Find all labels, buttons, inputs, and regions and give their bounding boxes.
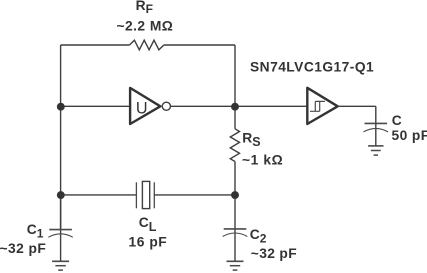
buffer U2 SN74LVC1G17-Q1 <box>307 88 337 124</box>
svg-text:RS: RS <box>242 131 260 149</box>
wire inverter input <box>61 105 131 107</box>
resistor RS <box>230 129 239 162</box>
wire inverter output to node <box>170 105 235 107</box>
node junction right-main <box>231 103 239 111</box>
svg-text:U: U <box>136 100 148 118</box>
wire feedback top horizontal right segment <box>164 44 235 46</box>
svg-text:50 pF: 50 pF <box>392 128 427 143</box>
op-amp inverter U <box>130 88 160 124</box>
svg-text:16 pF: 16 pF <box>129 235 168 250</box>
capacitor C1 curved plate <box>48 234 72 238</box>
svg-text:C2: C2 <box>250 227 267 246</box>
svg-text:C1: C1 <box>27 222 44 241</box>
wire output drop to capacitor C <box>375 106 377 146</box>
inverter output bubble <box>162 102 170 110</box>
resistor RF <box>130 40 164 50</box>
wire crystal row right <box>154 194 235 196</box>
wire feedback right vertical drop <box>234 45 236 106</box>
capacitor C curved plate <box>364 128 389 132</box>
svg-text:SN74LVC1G17-Q1: SN74LVC1G17-Q1 <box>250 60 374 75</box>
svg-text:~32 pF: ~32 pF <box>0 241 46 256</box>
node junction right-crystal <box>231 191 239 199</box>
wire schmitt output <box>338 105 376 107</box>
node junction left-crystal <box>57 191 65 199</box>
capacitor C1 top plate <box>49 229 72 231</box>
svg-text:~1 kΩ: ~1 kΩ <box>242 152 283 167</box>
wire left rail vertical <box>60 45 62 230</box>
ground for C1 <box>52 261 69 270</box>
wire feedback top horizontal left segment <box>61 44 130 46</box>
wire node to schmitt input <box>235 105 307 107</box>
node junction left-main <box>57 103 65 111</box>
capacitor C top plate <box>365 122 388 124</box>
ground for C2 <box>227 261 244 270</box>
capacitor C2 curved plate <box>223 233 248 237</box>
wire RS top <box>234 106 236 129</box>
svg-text:C: C <box>392 113 402 128</box>
crystal CL body <box>142 181 149 208</box>
wire C2 vertical <box>234 195 236 261</box>
svg-text:~2.2 MΩ: ~2.2 MΩ <box>117 19 174 34</box>
crystal CL right plate <box>153 182 155 208</box>
svg-text:RF: RF <box>136 0 153 16</box>
svg-text:~32 pF: ~32 pF <box>251 246 297 261</box>
capacitor C2 top plate <box>224 228 247 230</box>
schmitt hysteresis symbol <box>310 101 325 111</box>
wire C1 vertical <box>60 195 62 261</box>
svg-text:CL: CL <box>139 215 157 234</box>
wire RS bottom <box>234 162 236 195</box>
wire crystal row left <box>61 194 137 196</box>
ground for capacitor C <box>368 146 383 155</box>
crystal CL left plate <box>135 182 137 208</box>
